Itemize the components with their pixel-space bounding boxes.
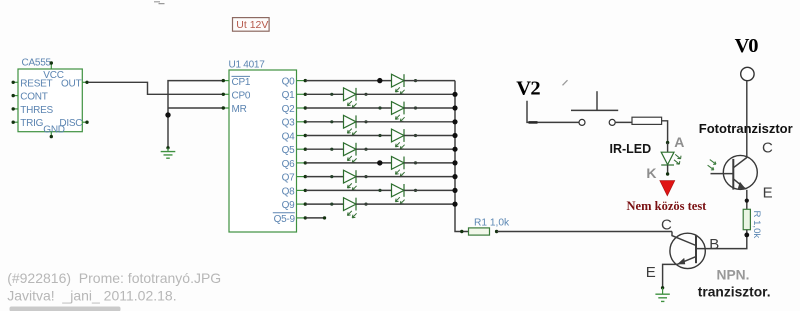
svg-text:CA555: CA555 xyxy=(22,57,52,68)
wire LED to bus xyxy=(404,80,455,82)
svg-text:A: A xyxy=(674,134,684,150)
wire LED to bus xyxy=(404,189,455,191)
wire LED to bus xyxy=(356,93,455,95)
svg-text:Q7: Q7 xyxy=(282,173,296,184)
svg-text:CP0: CP0 xyxy=(232,91,251,102)
caption cut-off line 3 xyxy=(10,307,121,311)
wire NPN emitter to ground xyxy=(663,264,677,287)
junction on CP1/MR net xyxy=(165,112,170,117)
annotation red arrow xyxy=(660,181,675,196)
wire V2 to switch xyxy=(527,101,579,123)
U1 pin Q0 xyxy=(282,77,307,88)
wire Q7 to LED xyxy=(306,176,344,178)
svg-text:Q4: Q4 xyxy=(282,131,296,142)
pushbutton switch xyxy=(571,91,618,125)
supply label Ut 12V xyxy=(233,18,270,32)
U1 pin MR xyxy=(222,104,247,115)
node K (cathode) xyxy=(646,165,669,181)
junction bus Q3 xyxy=(452,119,457,124)
svg-text:Q8: Q8 xyxy=(282,186,296,197)
LED D7 on Q6 xyxy=(378,157,417,177)
wire Q0 to LED xyxy=(306,80,392,82)
LED D5 on Q4 xyxy=(378,129,417,149)
svg-text:Fototranzisztor: Fototranzisztor xyxy=(699,121,793,136)
wire phototransistor emitter to R xyxy=(746,190,748,210)
svg-text:GND: GND xyxy=(43,124,65,135)
CA555 pin OUT xyxy=(61,78,89,89)
junction bus Q9 xyxy=(452,202,457,207)
svg-text:Ut 12V: Ut 12V xyxy=(236,19,268,31)
svg-text:U1 4017: U1 4017 xyxy=(229,60,266,71)
svg-text:Q3: Q3 xyxy=(282,118,296,129)
svg-text:Q5-9: Q5-9 xyxy=(274,214,296,225)
LED D2 on Q1 xyxy=(330,88,367,108)
svg-text:tranzisztor.: tranzisztor. xyxy=(698,285,771,300)
svg-text:CONT: CONT xyxy=(20,92,47,103)
series resistor (IR-LED ballast) xyxy=(632,117,662,124)
LED D6 on Q5 xyxy=(330,143,367,163)
resistor R1 1,0k xyxy=(460,217,510,235)
wire Q4 to LED xyxy=(306,135,392,137)
U1 pin Q5 xyxy=(282,145,307,156)
svg-text:V0: V0 xyxy=(735,35,759,57)
wire LED to bus xyxy=(404,162,455,164)
junction bus Q5 xyxy=(452,147,457,152)
ground at CP1/MR net xyxy=(161,146,176,158)
wire LED to bus xyxy=(356,203,455,205)
svg-text:R 1,0k: R 1,0k xyxy=(751,211,762,239)
svg-text:K: K xyxy=(646,165,656,181)
CA555 pin RESET xyxy=(12,78,53,89)
CA555 pin DISC xyxy=(59,118,88,129)
svg-text:Q1: Q1 xyxy=(282,90,296,101)
junction bus Q7 xyxy=(452,174,457,179)
junction on Q6 wire xyxy=(377,160,382,165)
svg-text:MR: MR xyxy=(232,104,247,115)
wire LED to bus xyxy=(356,121,455,123)
stray mark near V2 xyxy=(563,80,568,85)
NPN transistor Q2 xyxy=(670,232,705,269)
svg-text:Q5: Q5 xyxy=(282,145,296,156)
svg-text:V2: V2 xyxy=(516,78,540,100)
wire resistor to IR-LED anode xyxy=(662,121,668,143)
LED D9 on Q8 xyxy=(378,184,417,204)
U1 pin Q6 xyxy=(282,159,307,170)
counter IC U1 4017 body xyxy=(229,60,297,233)
svg-text:TRIG: TRIG xyxy=(20,118,43,129)
wire net MR xyxy=(168,107,222,109)
junction at R bottom xyxy=(744,233,749,238)
LED D10 on Q9 xyxy=(330,198,367,218)
svg-text:Javitva! _jani_ 2011.02.18.: Javitva! _jani_ 2011.02.18. xyxy=(7,287,176,303)
svg-text:Nem közös test: Nem közös test xyxy=(627,199,708,213)
resistor R 1,0k (vertical) xyxy=(743,209,762,238)
CA555 pin GND xyxy=(43,124,65,138)
svg-text:Q2: Q2 xyxy=(282,104,296,115)
svg-text:Q6: Q6 xyxy=(282,159,296,170)
U1 pin Q2 xyxy=(282,104,307,115)
svg-text:IR-LED: IR-LED xyxy=(610,142,652,156)
junction bus Q2 xyxy=(452,105,457,110)
wire switch to series resistor xyxy=(616,121,632,123)
IR-LED D11 xyxy=(661,143,681,174)
svg-text:Q9: Q9 xyxy=(282,200,296,211)
wire net CP1 xyxy=(168,81,222,148)
svg-text:R1 1,0k: R1 1,0k xyxy=(474,217,510,228)
LED D8 on Q7 xyxy=(330,170,367,190)
U1 pin CP0 xyxy=(222,91,251,102)
U1 pin Q5-9 xyxy=(273,213,326,225)
svg-text:CP1: CP1 xyxy=(232,77,251,88)
svg-text:NPN.: NPN. xyxy=(717,267,750,282)
U1 pin CP1 xyxy=(222,76,251,87)
wire Q6 to LED xyxy=(306,162,392,164)
U1 pin Q3 xyxy=(282,118,307,129)
wire LED to bus xyxy=(404,107,455,109)
timer IC CA555 body xyxy=(18,57,82,131)
cathode bus wire xyxy=(455,81,469,232)
CA555 pin VCC xyxy=(43,61,63,81)
svg-text:Q0: Q0 xyxy=(282,77,296,88)
top margin mark xyxy=(154,2,165,4)
wire Q1 to LED xyxy=(306,93,344,95)
junction bus Q4 xyxy=(452,133,457,138)
CA555 pin CONT xyxy=(12,92,48,103)
wire Q5 to LED xyxy=(306,148,344,150)
LED D1 on Q0 xyxy=(378,74,417,94)
svg-text:C: C xyxy=(661,217,672,234)
svg-text:THRES: THRES xyxy=(20,105,53,116)
svg-text:RESET: RESET xyxy=(20,78,52,89)
wire V0 to phototransistor collector xyxy=(746,81,748,158)
junction on Q0 wire xyxy=(377,78,382,83)
node A (anode) xyxy=(666,134,684,150)
wire Q3 to LED xyxy=(306,121,344,123)
svg-text:E: E xyxy=(646,264,656,281)
wire LED to bus xyxy=(404,135,455,137)
svg-text:OUT: OUT xyxy=(61,78,82,89)
U1 pin Q8 xyxy=(282,186,307,197)
wire Q9 to LED xyxy=(306,203,344,205)
CA555 pin TRIG xyxy=(12,118,44,129)
ground at NPN emitter xyxy=(655,286,669,301)
wire LED to bus xyxy=(356,176,455,178)
CA555 pin THRES xyxy=(12,105,54,116)
svg-text:E: E xyxy=(763,185,773,202)
wire Q8 to LED xyxy=(306,189,392,191)
U1 pin Q1 xyxy=(282,90,307,101)
voltage node V0 xyxy=(735,35,759,81)
junction bus Q8 xyxy=(452,188,457,193)
LED D4 on Q3 xyxy=(330,115,367,135)
svg-text:(#922816) Prome: fototranyó.J: (#922816) Prome: fototranyó.JPG xyxy=(7,270,221,286)
junction bus Q6 xyxy=(452,160,457,165)
wire Q2 to LED xyxy=(306,107,392,109)
U1 pin Q7 xyxy=(282,173,307,184)
junction bus Q1 xyxy=(452,92,457,97)
U1 pin Q9 xyxy=(282,200,307,211)
U1 pin Q4 xyxy=(282,131,307,142)
phototransistor Q1 xyxy=(708,155,758,189)
LED D3 on Q2 xyxy=(378,102,417,122)
svg-text:C: C xyxy=(762,140,773,157)
wire OUT to CP0 xyxy=(88,82,222,94)
wire LED to bus xyxy=(356,148,455,150)
wire R1 to NPN collector xyxy=(497,231,672,233)
wire R to NPN base xyxy=(696,230,747,249)
svg-text:B: B xyxy=(709,236,719,253)
